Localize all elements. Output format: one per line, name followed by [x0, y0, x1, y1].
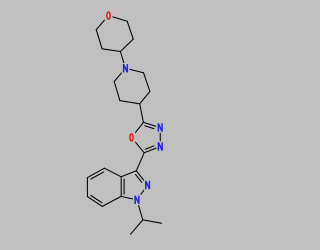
atom N1 (indazole): [133, 195, 141, 206]
atom O1 (oxadiazole): [128, 132, 136, 143]
atom O (oxane): [105, 10, 113, 21]
wire oxadiazole C5-O1: [134, 141, 144, 153]
wire benzo C7-C7a: [102, 196, 121, 206]
wire indazole N2-N1: [140, 189, 145, 196]
wire pip C4-C5: [120, 101, 140, 104]
wire pip N-C2: [130, 69, 144, 72]
wire pip C2-C3: [144, 73, 150, 92]
wire indazole C3=N2: [136, 171, 145, 183]
wire bond CH-methyl right: [143, 220, 162, 223]
wire bond N1-isopropyl CH: [138, 204, 143, 220]
wire benzo C6=C7: [87, 196, 102, 207]
wire indazole C3a-C3: [121, 171, 136, 177]
wire bond CH-methyl left: [131, 220, 143, 234]
wire benzo C4=C5: [87, 168, 104, 179]
wire benzo C3a-C4: [104, 168, 121, 177]
wire link pyranC4-N: [120, 52, 124, 65]
wire pyran C5-C6: [96, 30, 102, 49]
wire pyran C4-C5: [102, 49, 120, 52]
wire pyran C3-C4: [120, 39, 133, 51]
wire link oxadiazoleC5-indazoleC3: [136, 153, 144, 171]
wire pyran C2-C3: [127, 21, 133, 39]
atom N (piperidine): [122, 63, 130, 74]
atom N2 (indazole): [144, 180, 152, 191]
wire oxadiazole C2=N3: [143, 122, 156, 128]
wire pip C5-C6: [114, 82, 120, 101]
atom N3 (oxadiazole): [156, 122, 164, 133]
wire indazole N1-C7a: [121, 196, 132, 199]
wire oxadiazole N3-N4: [159, 132, 161, 142]
wire pyran O-C2: [113, 17, 127, 21]
wire pip C6-N: [114, 72, 122, 82]
wire indazole C7a=C3a fused: [121, 177, 124, 197]
wire oxadiazole O1-C2: [134, 122, 143, 133]
wire pyran C6-O: [96, 19, 105, 30]
wire benzo C5-C6: [86, 178, 88, 197]
atom N4 (oxadiazole): [157, 141, 165, 152]
wire oxadiazole N4=C5: [144, 146, 156, 153]
wire link pipC4-oxadiazoleC2: [140, 104, 144, 123]
wire pip C3-C4: [140, 92, 150, 104]
